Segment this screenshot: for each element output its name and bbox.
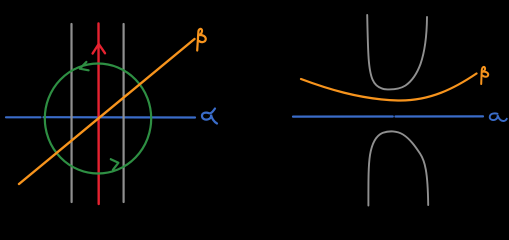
label beta (left) xyxy=(197,29,206,51)
gray curve top (U shape) xyxy=(367,15,427,89)
orange diagonal line xyxy=(19,39,195,184)
axis beta (red vertical line) xyxy=(97,24,100,205)
red up arrow on line xyxy=(93,44,105,54)
gray vertical line (left) xyxy=(70,24,72,202)
green arrow top (pointing left) xyxy=(80,62,89,70)
axis alpha right (blue horizontal line) xyxy=(293,115,483,117)
label alpha (left) xyxy=(202,109,217,124)
gray vertical line (right) xyxy=(122,24,124,202)
green circle xyxy=(45,64,151,174)
label alpha (right) xyxy=(490,113,507,121)
axis alpha (blue horizontal line) xyxy=(6,116,195,119)
green arrow bottom (pointing right) xyxy=(111,159,119,170)
label beta (right) xyxy=(481,67,488,84)
orange image curve xyxy=(301,74,477,101)
gray curve bottom (inverted U) xyxy=(368,131,428,205)
